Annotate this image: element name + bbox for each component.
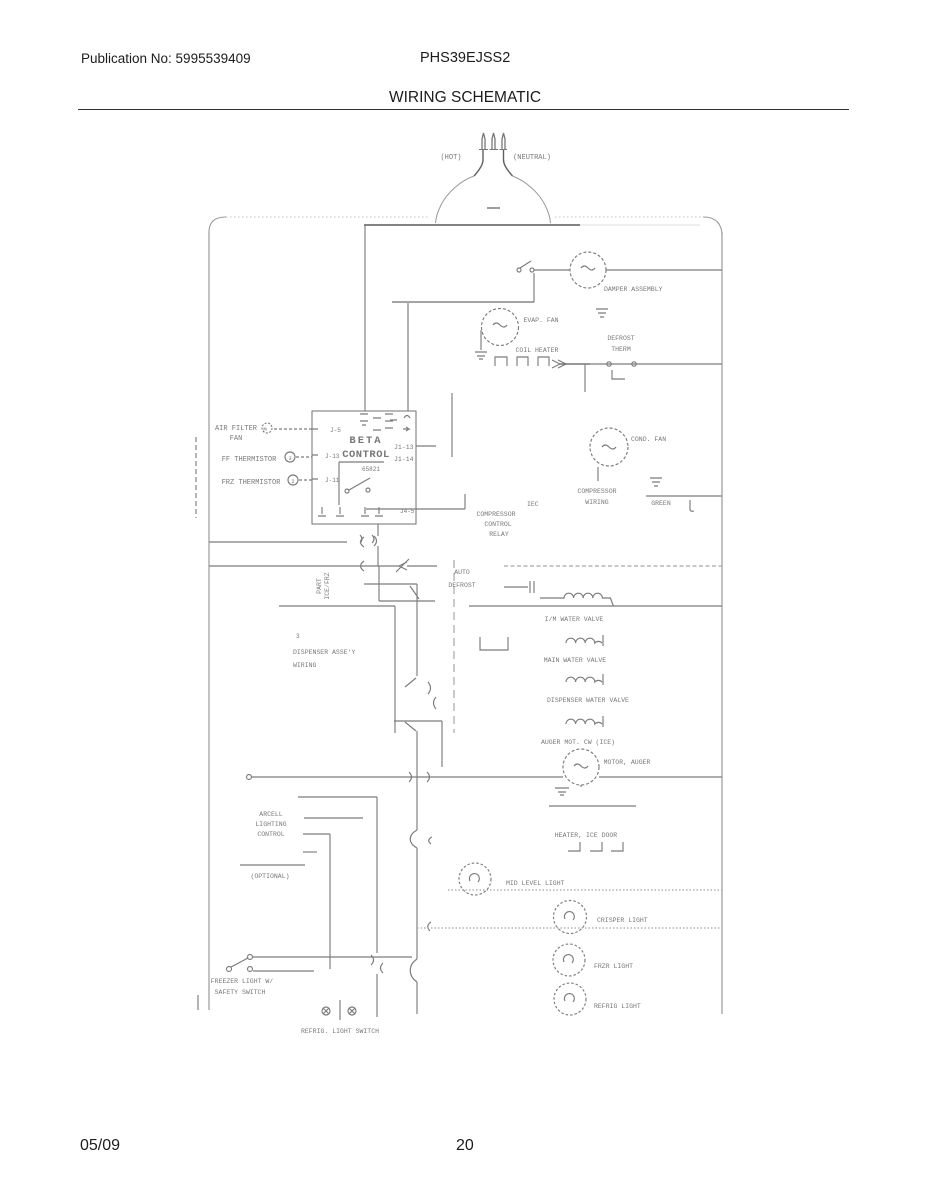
svg-text:EVAP. FAN: EVAP. FAN <box>523 317 558 324</box>
svg-text:65821: 65821 <box>362 466 380 473</box>
svg-text:FRZR LIGHT: FRZR LIGHT <box>594 963 633 970</box>
svg-text:DISPENSER ASSE'Y: DISPENSER ASSE'Y <box>293 649 356 656</box>
svg-text:I/M WATER VALVE: I/M WATER VALVE <box>545 616 604 623</box>
svg-text:IEC: IEC <box>527 501 539 508</box>
svg-text:HEATER, ICE DOOR: HEATER, ICE DOOR <box>555 832 618 839</box>
svg-text:WIRING: WIRING <box>293 662 317 669</box>
svg-text:FAN: FAN <box>230 435 243 443</box>
svg-text:RELAY: RELAY <box>489 531 509 538</box>
svg-text:AUGER MOT. CW (ICE): AUGER MOT. CW (ICE) <box>541 739 615 746</box>
svg-text:J1-13: J1-13 <box>394 444 414 451</box>
svg-text:J4-5: J4-5 <box>400 508 415 515</box>
svg-text:SAFETY SWITCH: SAFETY SWITCH <box>215 989 266 996</box>
svg-text:FF THERMISTOR: FF THERMISTOR <box>222 456 277 464</box>
svg-text:MID LEVEL LIGHT: MID LEVEL LIGHT <box>506 880 565 887</box>
svg-text:PART: PART <box>316 578 323 594</box>
svg-text:MAIN WATER VALVE: MAIN WATER VALVE <box>544 657 607 664</box>
svg-text:DISPENSER WATER VALVE: DISPENSER WATER VALVE <box>547 697 629 704</box>
svg-text:BETA: BETA <box>349 435 382 447</box>
svg-text:FREEZER LIGHT W/: FREEZER LIGHT W/ <box>211 978 274 985</box>
svg-text:DEFROST: DEFROST <box>607 335 634 342</box>
svg-text:CONTROL: CONTROL <box>484 521 511 528</box>
svg-text:COMPRESSOR: COMPRESSOR <box>577 488 616 495</box>
svg-text:MOTOR, AUGER: MOTOR, AUGER <box>604 759 651 766</box>
svg-text:3: 3 <box>296 633 300 640</box>
svg-text:GREEN: GREEN <box>651 500 671 507</box>
svg-text:COND. FAN: COND. FAN <box>631 436 666 443</box>
svg-text:M: M <box>263 426 266 433</box>
svg-text:COIL HEATER: COIL HEATER <box>516 347 559 354</box>
svg-text:ARCELL: ARCELL <box>259 811 283 818</box>
svg-text:2: 2 <box>291 478 294 485</box>
svg-text:J1-14: J1-14 <box>394 456 414 463</box>
svg-text:THERM: THERM <box>611 346 631 353</box>
svg-text:AIR FILTER: AIR FILTER <box>215 425 258 433</box>
svg-text:REFRIG. LIGHT SWITCH: REFRIG. LIGHT SWITCH <box>301 1028 379 1035</box>
svg-text:AUTO: AUTO <box>454 569 470 576</box>
svg-text:CRISPER LIGHT: CRISPER LIGHT <box>597 917 648 924</box>
svg-text:J-11: J-11 <box>325 477 340 484</box>
svg-text:3: 3 <box>288 455 291 462</box>
svg-text:REFRIG LIGHT: REFRIG LIGHT <box>594 1003 641 1010</box>
svg-text:COMPRESSOR: COMPRESSOR <box>476 511 515 518</box>
svg-text:DEFROST: DEFROST <box>448 582 475 589</box>
svg-text:(HOT): (HOT) <box>440 154 461 162</box>
svg-text:J-13: J-13 <box>325 453 340 460</box>
svg-text:LIGHTING: LIGHTING <box>255 821 286 828</box>
svg-text:DAMPER ASSEMBLY: DAMPER ASSEMBLY <box>604 286 663 293</box>
svg-text:CONTROL: CONTROL <box>257 831 284 838</box>
svg-text:CONTROL: CONTROL <box>342 449 390 461</box>
svg-text:(NEUTRAL): (NEUTRAL) <box>513 154 551 162</box>
svg-text:(OPTIONAL): (OPTIONAL) <box>250 873 289 880</box>
svg-text:FRZ THERMISTOR: FRZ THERMISTOR <box>222 479 282 487</box>
svg-text:J-5: J-5 <box>330 427 341 434</box>
svg-text:WIRING: WIRING <box>585 499 609 506</box>
svg-text:ICE/FRZ: ICE/FRZ <box>324 572 331 599</box>
